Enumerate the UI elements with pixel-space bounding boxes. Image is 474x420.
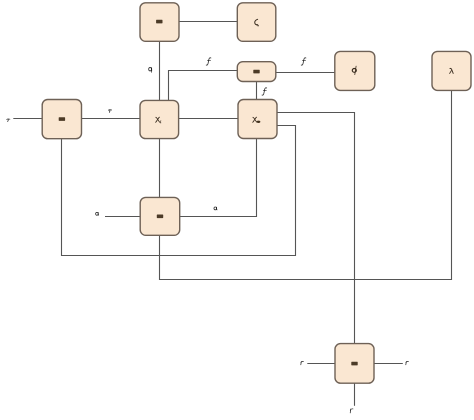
wire f: x_t to equality f-box <box>169 71 238 101</box>
wire tau: equality B to x_t <box>82 118 141 120</box>
wire x_t+1 to equality r-box <box>277 113 355 344</box>
wire tau dangling left <box>13 118 42 120</box>
label r right <box>406 361 409 364</box>
wire r dangling right <box>374 363 403 365</box>
equality node A <box>140 3 179 42</box>
label f right <box>301 58 306 65</box>
node x_t+1 <box>238 100 277 139</box>
label r left <box>301 361 304 364</box>
label a right <box>214 207 217 210</box>
label f below <box>262 88 267 95</box>
wire a-box to lambda <box>160 90 452 279</box>
node phi <box>335 51 375 90</box>
wire q: equality A to x_t <box>159 41 161 100</box>
wire x_t to x_t+1 <box>179 118 238 120</box>
label f left <box>206 58 211 65</box>
equality node B <box>42 100 81 139</box>
wire r dangling bottom <box>354 383 356 406</box>
wire A to zeta <box>179 21 237 23</box>
node zeta <box>237 3 275 42</box>
wire r dangling left <box>307 363 335 365</box>
node lambda <box>432 51 471 90</box>
label tau left <box>7 119 10 122</box>
wire f: f-box to x_t+1 <box>256 82 258 100</box>
label a left <box>96 212 99 215</box>
wire a: a-box to x_t+1 <box>180 139 257 217</box>
label q <box>149 68 152 73</box>
wire x_t to equality a-box <box>159 139 161 198</box>
label r bottom <box>350 409 353 413</box>
wire f: f-box to phi <box>276 72 335 74</box>
label tau right <box>108 110 111 113</box>
equality node r <box>335 344 374 384</box>
node x_t <box>140 100 179 138</box>
equality node a <box>140 197 180 235</box>
wire a dangling left <box>105 216 140 218</box>
equality node f <box>237 62 275 82</box>
wire x_t+1 to equality B <box>62 126 296 256</box>
